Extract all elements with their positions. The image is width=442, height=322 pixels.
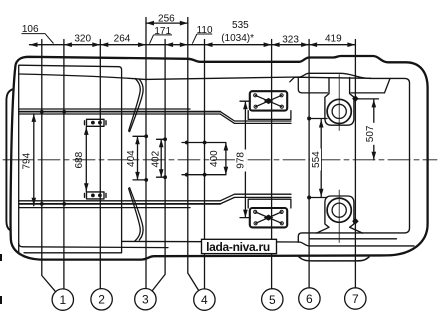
cross brace top base: [248, 111, 291, 120]
inner front edge vertical: [18, 65, 20, 253]
svg-text:419: 419: [325, 34, 342, 45]
svg-text:3: 3: [142, 293, 149, 307]
fuel tank well bottom: [317, 196, 363, 233]
callout circle 5: [262, 289, 283, 310]
extension line 7: [204, 40, 206, 289]
a-pillar crescent bottom: [129, 188, 141, 241]
dim 402 line and ticks: [157, 139, 166, 177]
extension line 1: [42, 40, 56, 292]
seat bracket top: [85, 119, 107, 126]
cross brace center knots: [264, 98, 274, 104]
svg-text:2: 2: [98, 293, 105, 307]
dim 978 line and ticks: [240, 101, 250, 217]
extension line 10: [354, 40, 356, 288]
callout circle 1: [52, 288, 366, 311]
svg-text:400: 400: [209, 150, 220, 167]
extension line 3: [99, 40, 101, 289]
cowl top inner line and door seam: [19, 65, 122, 253]
dimension 256 line: [146, 22, 188, 24]
extension line 6: [188, 18, 199, 291]
front bumper arc: [6, 90, 12, 231]
callout circle 7: [345, 288, 366, 309]
center axis line: [3, 159, 437, 161]
inner sloped line upper: [19, 73, 410, 242]
svg-text:402: 402: [150, 150, 161, 167]
fuel tank well top: [325, 78, 354, 126]
rail step top: [220, 112, 291, 124]
tow ring bottom outer: [327, 198, 351, 222]
body outer outline: [11, 56, 428, 260]
rail step bottom: [220, 194, 291, 204]
svg-text:1: 1: [59, 293, 66, 307]
a-pillar crescent top: [129, 78, 141, 131]
svg-text:6: 6: [306, 292, 313, 306]
svg-text:507: 507: [365, 125, 376, 142]
svg-text:5: 5: [269, 293, 276, 307]
cross brace bottom: [250, 208, 287, 227]
svg-text:256: 256: [158, 13, 175, 24]
tow ring top inner: [332, 104, 346, 118]
seat bracket bottom: [85, 192, 107, 199]
extension line 5: [152, 40, 165, 291]
scan artifact marks: [0, 254, 2, 261]
callout circle 6: [299, 288, 320, 309]
svg-text:323: 323: [282, 35, 299, 46]
extension line 2: [63, 40, 65, 290]
dim label 554: [310, 149, 321, 171]
cross brace bottom base: [248, 199, 291, 208]
watermark lada-niva.ru: [202, 239, 277, 253]
inner sill line lower left: [19, 244, 168, 248]
dim 507 line and tick: [355, 99, 378, 160]
callout circle 4: [194, 289, 215, 310]
dim 554 line and ticks: [309, 119, 327, 198]
tow ring bottom inner: [332, 203, 346, 217]
svg-text:978: 978: [236, 152, 247, 169]
extension line 8: [271, 40, 273, 289]
svg-text:404: 404: [126, 150, 137, 167]
dim label 507: [364, 123, 375, 145]
svg-text:554: 554: [311, 151, 322, 168]
cross brace top: [250, 91, 287, 110]
svg-text:4: 4: [201, 293, 208, 307]
svg-text:535: 535: [232, 20, 249, 31]
front crossmember lines bottom: [19, 207, 190, 209]
axis line bottom well: [338, 190, 340, 243]
svg-text:(1034)*: (1034)*: [221, 33, 254, 44]
svg-text:264: 264: [114, 33, 131, 44]
front crossmember lines top: [19, 108, 190, 110]
svg-text:320: 320: [74, 33, 91, 44]
extension line 4: [145, 18, 147, 289]
rear tray top line: [290, 77, 390, 93]
callout circle 2: [91, 289, 112, 310]
tow ring top outer: [327, 99, 351, 123]
rear tray bottom line: [310, 238, 397, 240]
measurement point dots: [40, 95, 359, 224]
svg-text:lada-niva.ru: lada-niva.ru: [206, 240, 270, 254]
chain arrows: [30, 21, 356, 47]
dim 400 line and ticks: [182, 143, 226, 175]
dim label 978: [235, 150, 246, 172]
diamond point at 507: [352, 95, 359, 102]
dim 404 line and ticks: [133, 136, 146, 180]
extension line 9: [308, 40, 310, 288]
svg-text:7: 7: [352, 292, 359, 306]
svg-text:688: 688: [74, 151, 85, 168]
inner sloped line lower right: [122, 241, 414, 246]
axis line top well: [338, 75, 340, 131]
rear bumper dip: [299, 257, 369, 261]
svg-text:794: 794: [22, 152, 33, 169]
dim 794 line: [33, 114, 35, 206]
callout circle 3: [135, 289, 156, 310]
dim 688 line: [85, 127, 87, 191]
vertical dim arrows: [32, 99, 377, 217]
main dimension chain line: [30, 44, 356, 46]
